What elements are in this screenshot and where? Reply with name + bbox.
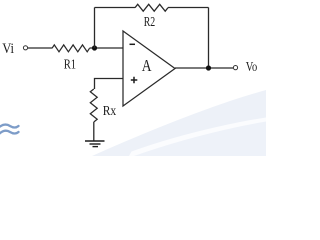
left-edge wave mark [0,125,19,136]
wire feedback down [208,8,210,69]
wire top to R2 [95,7,136,9]
background swoosh lower-right [92,90,266,156]
wire node up [94,8,96,49]
wire noninverting input [95,79,124,90]
ground [85,141,105,147]
wire Rx to ground [93,122,95,141]
svg-text:Vi: Vi [2,41,14,57]
minus sign [130,43,136,45]
svg-text:Rx: Rx [103,104,117,119]
resistor R1 [52,45,90,52]
svg-text:A: A [142,56,152,75]
output terminal [233,66,237,70]
wire R2 to right [168,7,209,9]
wire op-amp output [175,67,233,69]
svg-text:Vo: Vo [246,59,258,74]
wire input to R1 [28,47,52,49]
plus sign [131,77,138,83]
svg-text:R2: R2 [144,15,156,30]
wire R1 to inverting input [90,47,124,49]
resistor Rx [90,89,97,122]
input terminal [23,46,27,50]
svg-text:R1: R1 [64,58,76,73]
op-amp A [123,31,175,106]
node junction dot [92,45,97,50]
resistor R2 [135,4,168,11]
node output dot [206,65,211,70]
